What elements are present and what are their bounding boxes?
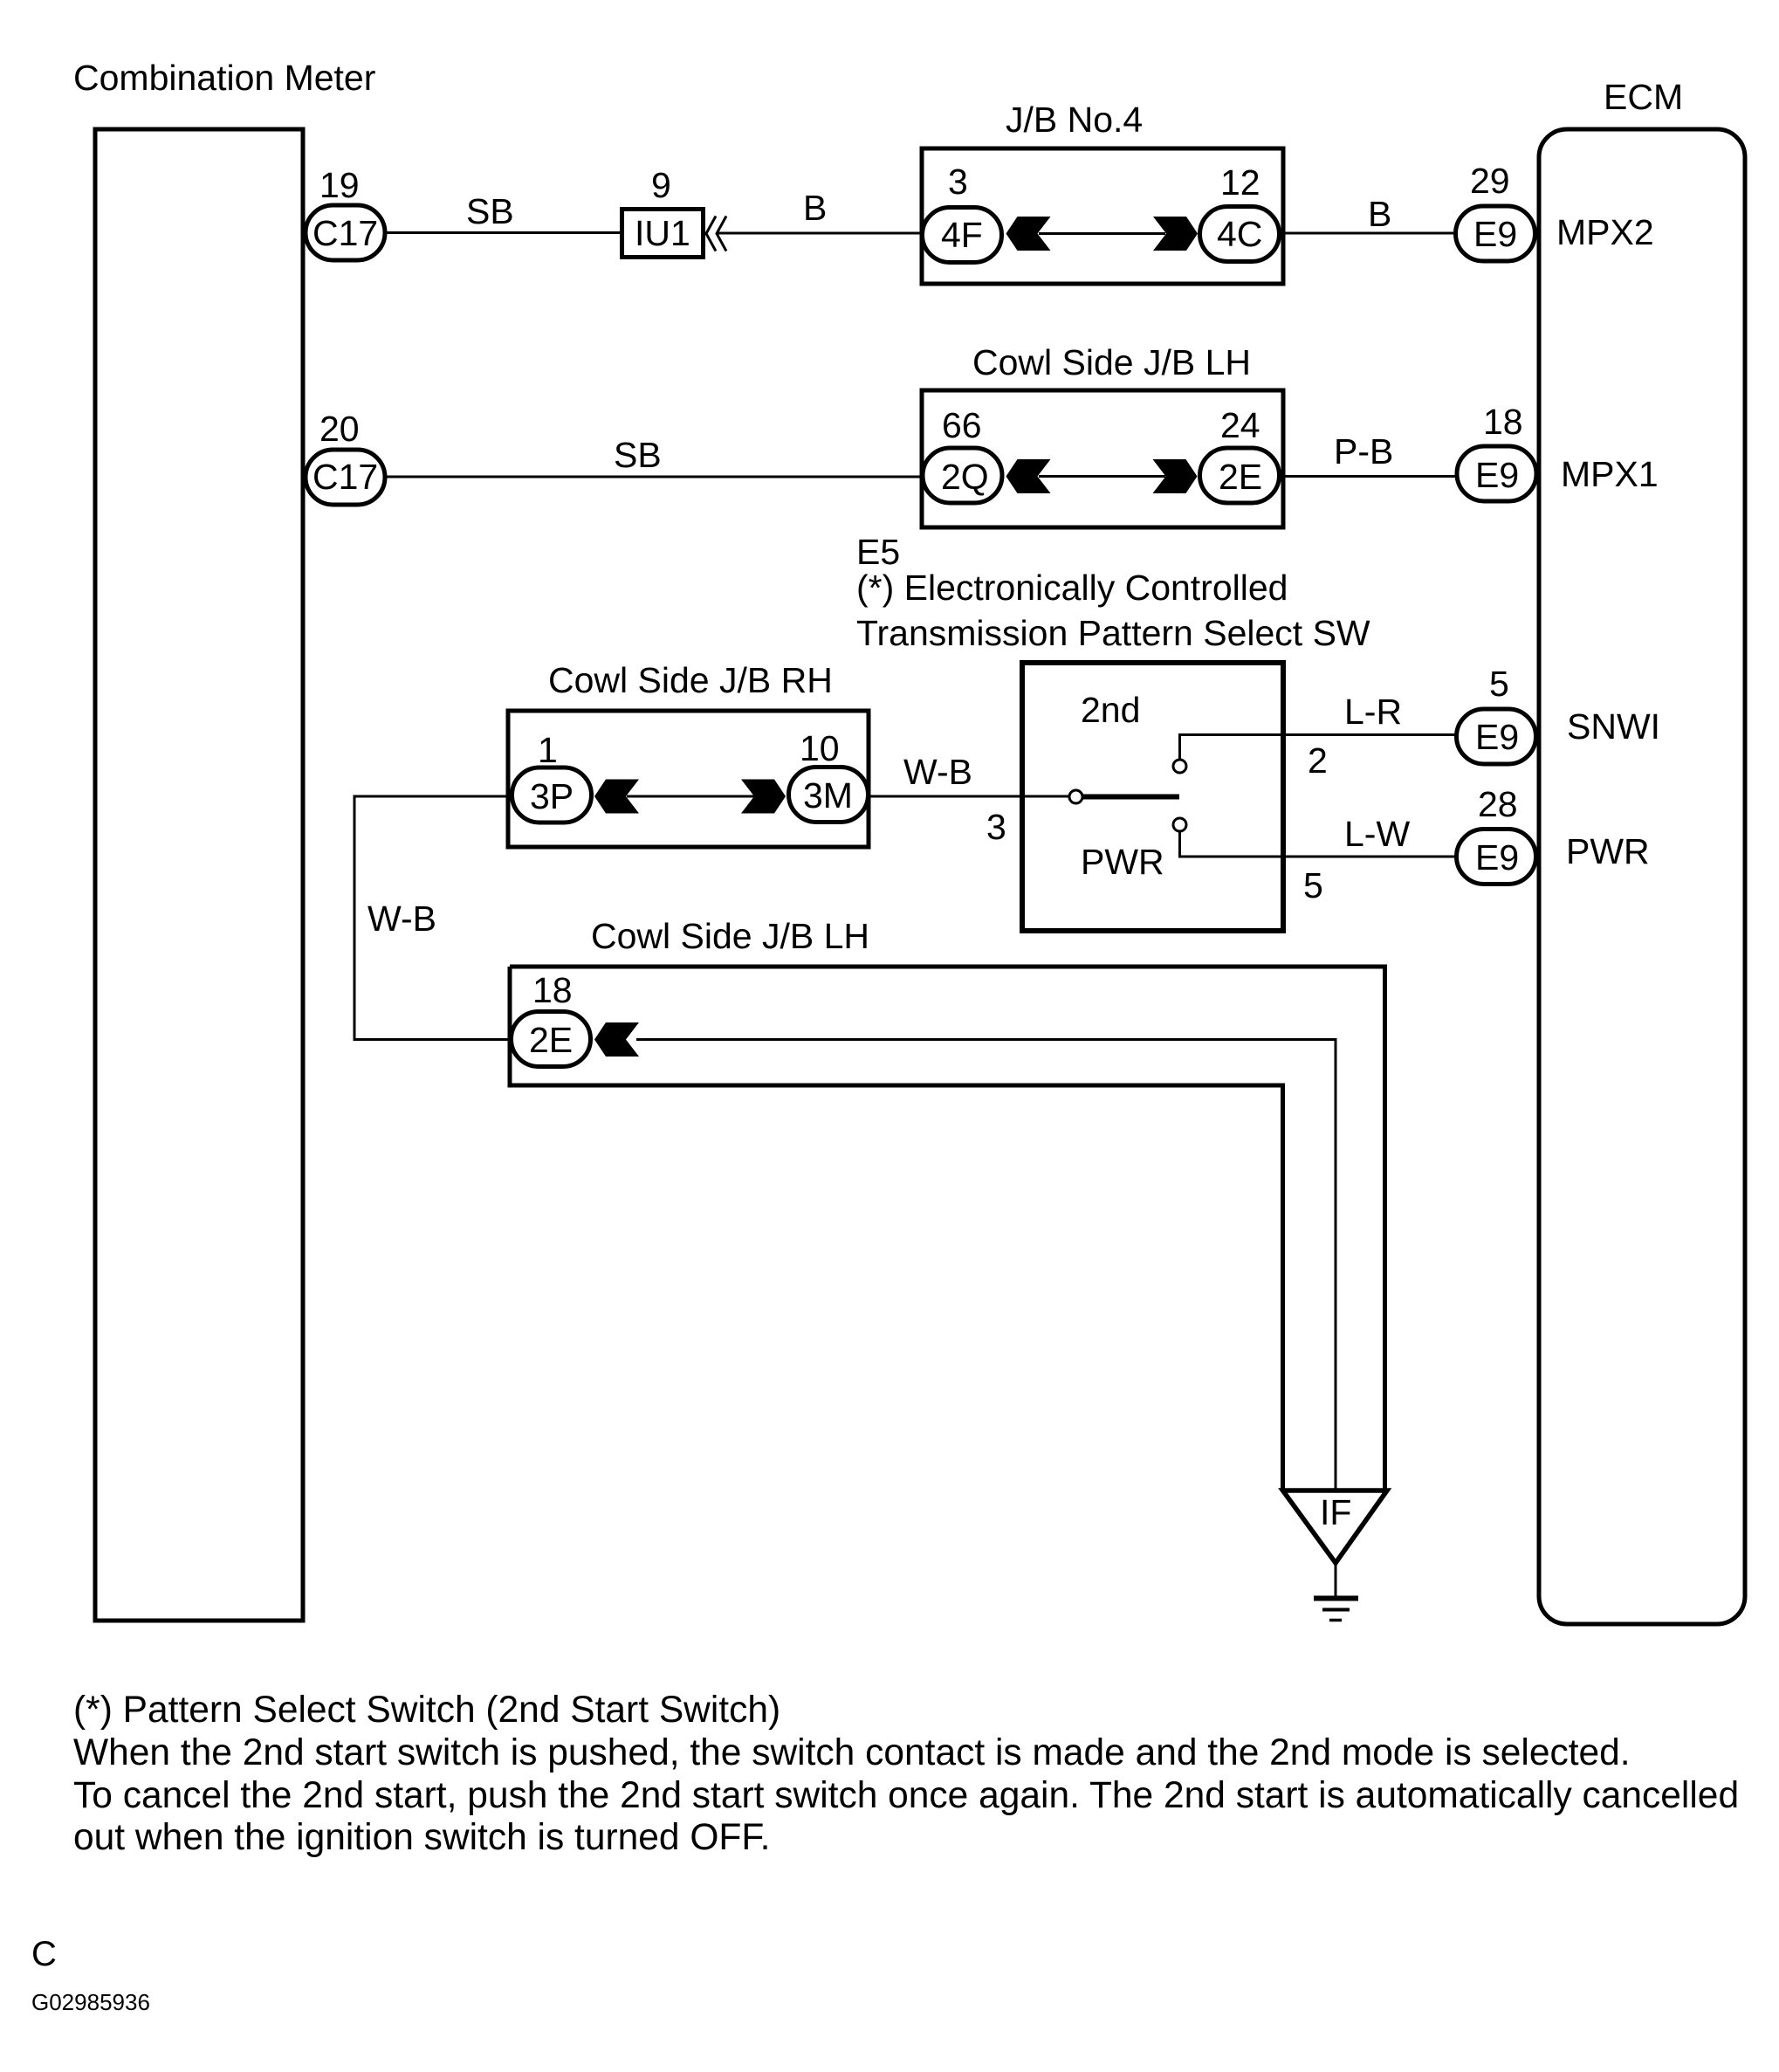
wire 3P to 2E (W-B) — [354, 796, 510, 1040]
svg-text:IU1: IU1 — [635, 213, 690, 253]
wire C17-19 to IU1 (SB) — [387, 231, 620, 234]
svg-text:3M: 3M — [803, 775, 853, 816]
Cowl Side J/B RH box — [508, 711, 869, 847]
svg-text:10: 10 — [800, 728, 840, 768]
combination meter box — [95, 129, 303, 1621]
wire contact2 riser — [1180, 735, 1456, 761]
svg-text:Cowl Side J/B LH: Cowl Side J/B LH — [591, 916, 869, 956]
pattern select switch box E5 — [1022, 663, 1283, 931]
svg-text:66: 66 — [942, 405, 982, 445]
connector IU1 — [622, 210, 704, 258]
connector E9 pin29 — [1456, 206, 1535, 261]
svg-text:E9: E9 — [1475, 455, 1519, 495]
Cowl Side J/B LH lower box top and right edge — [510, 967, 1385, 1490]
svg-text:2E: 2E — [529, 1020, 573, 1060]
svg-text:29: 29 — [1470, 161, 1510, 201]
wire IU1 to 4F (B) — [718, 232, 922, 235]
svg-text:Combination Meter: Combination Meter — [73, 58, 375, 98]
double chevron splice at IU1 — [706, 217, 716, 251]
ECM box U1 — [1539, 129, 1745, 1624]
svg-text:1: 1 — [538, 730, 558, 770]
connector 3P — [512, 768, 592, 823]
arrow into 2E lower — [594, 1022, 639, 1057]
wire 2E to E9-18 (P-B) — [1283, 475, 1455, 478]
wire 4C to E9-29 (B) — [1283, 232, 1453, 235]
svg-text:P-B: P-B — [1334, 431, 1393, 472]
svg-text:4C: 4C — [1217, 214, 1262, 254]
svg-text:Cowl Side J/B RH: Cowl Side J/B RH — [548, 660, 833, 700]
svg-text:W-B: W-B — [903, 752, 972, 792]
connector 4F — [923, 208, 1002, 263]
svg-text:W-B: W-B — [367, 898, 436, 939]
svg-text:9: 9 — [651, 165, 671, 205]
Cowl Side J/B LH lower box left bottom and inner edge — [510, 967, 1283, 1490]
svg-text:18: 18 — [532, 970, 573, 1010]
svg-text:12: 12 — [1220, 162, 1260, 203]
svg-text:C17: C17 — [313, 213, 378, 253]
connector 2Q — [923, 448, 1002, 503]
wire C17-20 to 2Q (SB) — [387, 476, 923, 478]
svg-text:5: 5 — [1489, 664, 1509, 704]
svg-text:4F: 4F — [941, 215, 983, 255]
arrow into 3P — [594, 780, 639, 814]
svg-text:18: 18 — [1483, 402, 1523, 442]
connector 4C — [1200, 207, 1280, 262]
svg-text:2E: 2E — [1219, 457, 1262, 497]
svg-text:MPX2: MPX2 — [1556, 212, 1654, 252]
arrow into 2E — [1153, 459, 1198, 493]
connector 3M — [789, 768, 869, 823]
svg-text:out when the ignition switch i: out when the ignition switch is turned O… — [73, 1817, 770, 1858]
wire inside J/B No.4 — [1039, 232, 1165, 235]
switch arm — [1083, 795, 1179, 800]
svg-text:3: 3 — [948, 162, 968, 202]
svg-text:2nd: 2nd — [1081, 690, 1140, 730]
svg-text:C17: C17 — [313, 457, 378, 497]
switch contact PWR — [1173, 818, 1186, 831]
switch common contact — [1069, 790, 1082, 803]
svg-text:J/B No.4: J/B No.4 — [1006, 100, 1143, 140]
wire inside Cowl Side J/B RH — [627, 795, 755, 798]
svg-text:5: 5 — [1303, 865, 1323, 905]
svg-text:B: B — [1368, 194, 1391, 234]
svg-text:MPX1: MPX1 — [1561, 454, 1659, 494]
svg-text:L-W: L-W — [1344, 814, 1410, 854]
wire inside Cowl Side J/B LH — [1039, 475, 1165, 478]
wire IF to ground — [1335, 1563, 1337, 1597]
svg-text:(*) Electronically Controlled: (*) Electronically Controlled — [856, 568, 1288, 608]
svg-text:When the 2nd start switch is p: When the 2nd start switch is pushed, the… — [73, 1732, 1631, 1773]
svg-text:To cancel the 2nd start, push: To cancel the 2nd start, push the 2nd st… — [73, 1775, 1739, 1816]
svg-text:SB: SB — [466, 191, 514, 231]
connector 2E — [1200, 448, 1280, 503]
svg-text:E5: E5 — [856, 532, 900, 572]
svg-text:SB: SB — [614, 435, 662, 475]
arrow into 4F — [1006, 217, 1051, 251]
svg-text:Cowl Side J/B LH: Cowl Side J/B LH — [972, 342, 1251, 382]
wire 3M to switch (W-B) — [870, 795, 1069, 798]
connector C17 pin19 — [306, 205, 385, 260]
Cowl Side J/B LH box — [922, 390, 1283, 527]
svg-text:PWR: PWR — [1081, 842, 1164, 882]
connector E9 pin18 — [1457, 446, 1536, 501]
connector IF triangle — [1283, 1490, 1388, 1563]
svg-text:E9: E9 — [1475, 837, 1519, 878]
svg-text:PWR: PWR — [1566, 831, 1650, 871]
svg-text:C: C — [31, 1935, 57, 1973]
ground — [1314, 1596, 1358, 1601]
arrow into 2Q — [1006, 459, 1051, 493]
svg-text:3P: 3P — [530, 776, 574, 816]
svg-text:ECM: ECM — [1604, 77, 1683, 117]
svg-text:E9: E9 — [1475, 717, 1519, 757]
svg-text:28: 28 — [1478, 784, 1518, 824]
connector C17 pin20 — [306, 450, 385, 505]
svg-text:(*) Pattern Select Switch (2nd: (*) Pattern Select Switch (2nd Start Swi… — [73, 1690, 780, 1731]
arrow into 4C — [1153, 217, 1198, 251]
svg-text:Transmission Pattern Select SW: Transmission Pattern Select SW — [856, 613, 1370, 653]
svg-text:IF: IF — [1320, 1492, 1351, 1532]
connector E9 pin28 — [1457, 829, 1536, 885]
switch contact 2nd — [1173, 760, 1186, 773]
svg-text:24: 24 — [1220, 405, 1260, 445]
connector E9 pin5 — [1457, 709, 1536, 764]
arrow into 3M — [741, 780, 786, 814]
svg-text:2Q: 2Q — [941, 457, 989, 497]
svg-text:SNWI: SNWI — [1567, 706, 1660, 747]
wire contact5 drop — [1180, 831, 1456, 857]
svg-text:3: 3 — [986, 807, 1006, 847]
J/B No.4 box — [922, 148, 1283, 284]
svg-text:L-R: L-R — [1344, 692, 1402, 732]
connector 2E lower — [512, 1012, 591, 1067]
svg-text:E9: E9 — [1473, 214, 1517, 254]
svg-text:G02985936: G02985936 — [31, 1989, 150, 2015]
svg-text:20: 20 — [319, 409, 360, 449]
svg-text:B: B — [803, 188, 827, 228]
svg-text:19: 19 — [319, 165, 360, 205]
svg-text:2: 2 — [1308, 740, 1328, 781]
wire to ground — [636, 1040, 1336, 1491]
